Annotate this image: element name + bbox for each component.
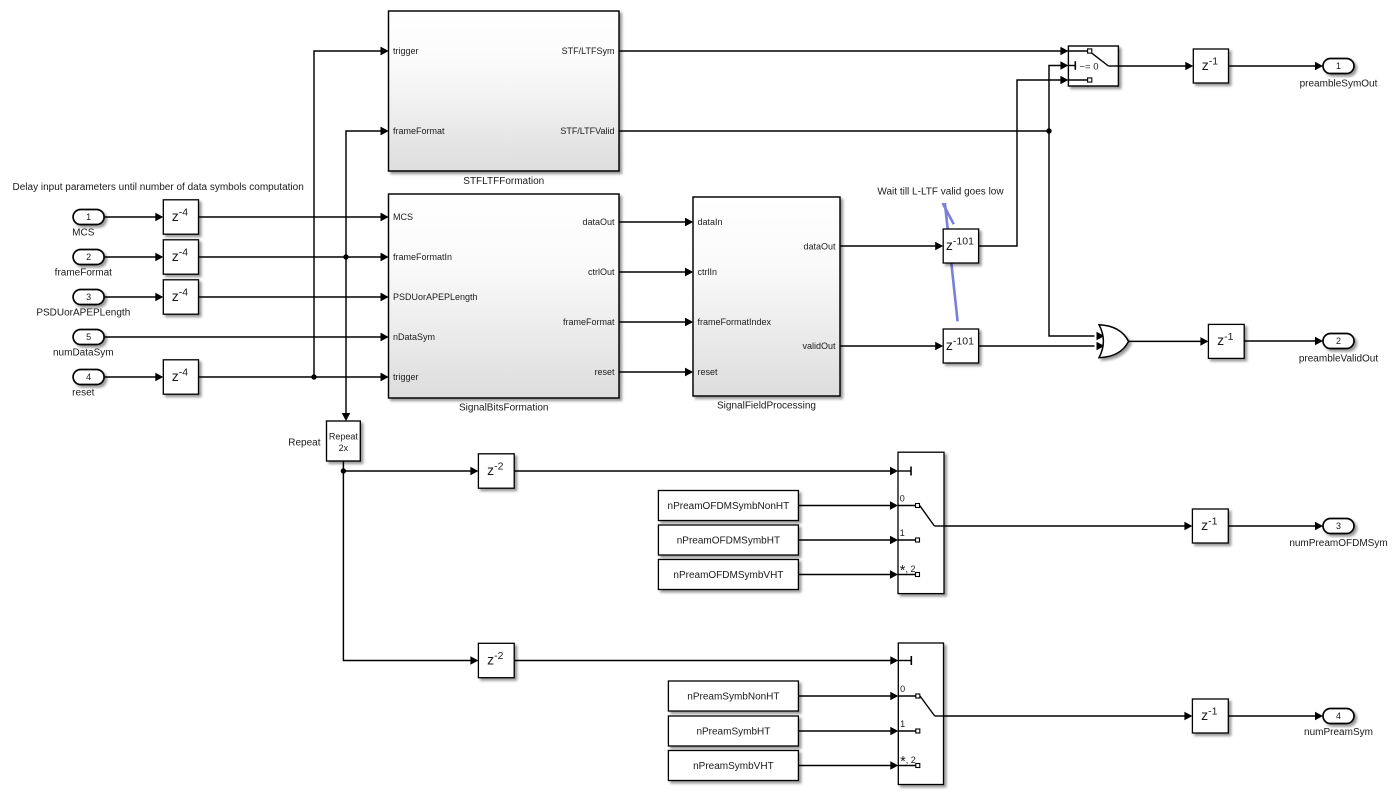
wire nPreamSymbNonHT to MultiportSwitch2 <box>798 692 898 701</box>
svg-text:3: 3 <box>1336 521 1341 531</box>
svg-text:trigger: trigger <box>393 46 419 56</box>
wire PSDUorAPEPLength port to Delay z-4 #3 <box>104 293 163 302</box>
wire Delay z-1 #4 to numPreamSym <box>1228 712 1323 721</box>
wire Delay z-4 #4 to SignalBitsFormation trigger <box>199 373 389 382</box>
annotation: Delay input parameters until number of data symbols computation <box>13 182 304 193</box>
wire to Delay z-2 #2 <box>343 471 478 665</box>
svg-text:numPreamOFDMSym: numPreamOFDMSym <box>1289 538 1387 549</box>
svg-text:PSDUorAPEPLength: PSDUorAPEPLength <box>393 292 478 302</box>
switch block ~= 0 <box>1068 46 1118 86</box>
callout line to Delay1 <box>943 203 954 224</box>
wire branch frameFormat down to Repeat <box>342 257 351 421</box>
delay block z-1 #2 <box>1208 324 1244 358</box>
wire nPreamOFDMSymbVHT to MultiportSwitch1 <box>798 570 898 579</box>
wire STF/LTFValid to junction <box>619 130 1049 132</box>
svg-text:~= 0: ~= 0 <box>1080 62 1099 73</box>
wire Delay z-2 #1 to MultiportSwitch1 control <box>514 467 898 476</box>
callout line to Delay2 <box>945 203 958 321</box>
constant nPreamSymbNonHT <box>668 681 798 711</box>
svg-text:reset: reset <box>698 367 719 377</box>
constant nPreamOFDMSymbNonHT <box>658 491 798 521</box>
wire Delay z-101 #2 to OR gate input 2 <box>979 342 1105 351</box>
svg-text:MCS: MCS <box>393 212 413 222</box>
svg-text:ctrlIn: ctrlIn <box>698 267 718 277</box>
svg-text:nPreamSymbVHT: nPreamSymbVHT <box>693 761 774 772</box>
svg-text:preambleValidOut: preambleValidOut <box>1299 354 1379 365</box>
svg-text:STF/LTFSym: STF/LTFSym <box>562 46 615 56</box>
delay block z-2 #2 <box>478 643 514 677</box>
svg-text:MCS: MCS <box>72 228 95 239</box>
svg-text:numPreamSym: numPreamSym <box>1304 727 1373 738</box>
wire SFP dataOut to Delay z-101 #1 <box>840 242 943 251</box>
svg-text:dataOut: dataOut <box>582 217 615 227</box>
wire MultiportSwitch2 to Delay z-1 #4 <box>944 712 1193 721</box>
constant nPreamSymbHT <box>668 716 798 746</box>
junction Repeat output branch <box>341 468 346 473</box>
delay block z-4 #3 <box>163 280 198 314</box>
svg-text:frameFormat: frameFormat <box>55 268 112 279</box>
junction frameFormat branch <box>343 254 348 259</box>
inport 2 frameFormat <box>55 250 112 279</box>
delay block z-2 #1 <box>478 454 514 488</box>
subsystem SignalFieldProcessing <box>685 197 840 412</box>
inport 4 reset <box>72 370 104 399</box>
svg-text:validOut: validOut <box>802 341 836 351</box>
svg-text:Repeat: Repeat <box>329 432 359 442</box>
wire Delay z-2 #2 to MultiportSwitch2 control <box>514 656 898 665</box>
wire frameFormat port to Delay z-4 #2 <box>104 253 163 262</box>
wire Delay z-1 #2 to preambleValidOut <box>1244 337 1323 346</box>
wire Delay z-1 #1 to preambleSymOut <box>1229 62 1324 71</box>
delay block z-1 #1 <box>1193 49 1228 83</box>
svg-text:nPreamSymbNonHT: nPreamSymbNonHT <box>687 692 779 703</box>
svg-text:4: 4 <box>1336 711 1341 721</box>
svg-text:numDataSym: numDataSym <box>53 348 114 359</box>
svg-text:dataOut: dataOut <box>803 242 836 252</box>
svg-text:dataIn: dataIn <box>698 217 723 227</box>
svg-text:reset: reset <box>594 367 615 377</box>
junction STF/LTFValid branch <box>1046 128 1051 133</box>
constant nPreamOFDMSymbVHT <box>658 560 798 590</box>
multiport switch 2 <box>898 643 943 785</box>
svg-text:0: 0 <box>900 494 905 504</box>
svg-text:Wait till L-LTF valid goes low: Wait till L-LTF valid goes low <box>877 187 1004 198</box>
inport 1 MCS <box>72 210 104 239</box>
inport 5 numDataSym <box>53 330 114 359</box>
svg-text:STF/LTFValid: STF/LTFValid <box>560 126 614 136</box>
svg-text:1: 1 <box>900 719 905 729</box>
wire branch frameFormat up to STFLTFFormation frameFormat <box>346 127 389 257</box>
wire nPreamSymbHT to MultiportSwitch2 <box>798 727 898 736</box>
delay block z-1 #3 <box>1192 509 1228 543</box>
wire ctrlOut to ctrlIn <box>619 268 693 277</box>
wire MultiportSwitch1 to Delay z-1 #3 <box>944 522 1192 531</box>
annotation: Wait till L-LTF valid goes low <box>877 187 1004 198</box>
subsystem STFLTFFormation <box>381 11 620 187</box>
wire nPreamSymbVHT to MultiportSwitch2 <box>798 761 898 770</box>
delay block z-4 #4 <box>163 360 198 394</box>
wire Repeat output down <box>342 461 344 471</box>
wire junction down to OR gate input 1 <box>1049 131 1105 340</box>
outport 2 preambleValidOut <box>1299 334 1379 365</box>
svg-text:nDataSym: nDataSym <box>393 332 435 342</box>
svg-text:STFLTFFormation: STFLTFFormation <box>463 176 544 187</box>
wire to Delay z-2 #1 <box>343 467 478 476</box>
wire STF/LTFSym to Switch input 1 <box>619 47 1068 56</box>
subsystem SignalBitsFormation <box>381 194 620 414</box>
wire branch trigger up to STFLTFFormation trigger <box>314 47 389 377</box>
junction trigger branch <box>311 374 316 379</box>
svg-text:nPreamSymbHT: nPreamSymbHT <box>696 727 770 738</box>
svg-text:4: 4 <box>86 372 91 382</box>
wire junction up to Switch control input <box>1049 61 1068 131</box>
wire frameFormat to frameFormatIndex <box>619 318 693 327</box>
svg-text:1: 1 <box>900 528 905 538</box>
delay block z-101 #2 <box>943 329 978 363</box>
outport 4 numPreamSym <box>1304 709 1373 739</box>
outport 3 numPreamOFDMSym <box>1289 519 1387 550</box>
svg-text:1: 1 <box>86 212 91 222</box>
svg-text:reset: reset <box>72 388 94 399</box>
outport 1 preambleSymOut <box>1300 59 1378 90</box>
svg-text:frameFormat: frameFormat <box>393 126 445 136</box>
wire nPreamOFDMSymbNonHT to MultiportSwitch1 <box>798 501 898 510</box>
svg-text:Repeat: Repeat <box>288 438 320 449</box>
wire Delay z-1 #3 to numPreamOFDMSym <box>1228 522 1323 531</box>
delay block z-4 #2 <box>163 240 198 274</box>
multiport switch 1 <box>898 452 944 593</box>
constant nPreamSymbVHT <box>668 751 798 781</box>
svg-text:trigger: trigger <box>393 372 419 382</box>
delay block z-101 #1 <box>943 229 978 263</box>
svg-text:5: 5 <box>86 332 91 342</box>
wire Delay z-4 #2 to SignalBitsFormation frameFormatIn <box>199 253 389 262</box>
wire reset to reset <box>619 368 693 377</box>
svg-text:0: 0 <box>900 684 905 694</box>
svg-text:PSDUorAPEPLength: PSDUorAPEPLength <box>36 308 130 319</box>
wire SFP validOut to Delay z-101 #2 <box>840 342 943 351</box>
wire MCS port to Delay z-4 #1 <box>104 213 163 222</box>
svg-text:preambleSymOut: preambleSymOut <box>1300 79 1378 90</box>
svg-text:frameFormat: frameFormat <box>563 317 615 327</box>
delay block z-4 #1 <box>163 200 198 234</box>
svg-text:frameFormatIn: frameFormatIn <box>393 252 452 262</box>
svg-text:SignalFieldProcessing: SignalFieldProcessing <box>717 401 816 412</box>
svg-text:SignalBitsFormation: SignalBitsFormation <box>459 403 548 414</box>
delay block z-1 #4 <box>1192 699 1228 733</box>
wire reset port to Delay z-4 #4 <box>104 373 163 382</box>
wire dataOut to dataIn <box>619 218 693 227</box>
svg-text:2: 2 <box>1336 336 1341 346</box>
wire numDataSym to SignalBitsFormation nDataSym <box>104 333 388 342</box>
block Repeat 2x <box>288 421 360 461</box>
wire Delay z-4 #3 to SignalBitsFormation PSDUorAPEPLength <box>199 293 389 302</box>
svg-text:2: 2 <box>86 252 91 262</box>
svg-text:nPreamOFDMSymbVHT: nPreamOFDMSymbVHT <box>673 570 783 581</box>
wire Delay z-101 #1 to Switch input 3 <box>979 76 1069 246</box>
OR gate (Logical Operator) <box>1099 325 1129 358</box>
inport 3 PSDUorAPEPLength <box>36 290 130 319</box>
wire OR gate to Delay z-1 #2 <box>1129 337 1209 346</box>
wire Delay z-4 #1 to SignalBitsFormation MCS <box>199 213 389 222</box>
svg-text:2x: 2x <box>339 443 349 453</box>
svg-text:1: 1 <box>1336 61 1341 71</box>
wire nPreamOFDMSymbHT to MultiportSwitch1 <box>798 536 898 545</box>
svg-text:nPreamOFDMSymbNonHT: nPreamOFDMSymbNonHT <box>668 501 790 512</box>
constant nPreamOFDMSymbHT <box>658 525 798 555</box>
svg-text:ctrlOut: ctrlOut <box>588 267 615 277</box>
svg-text:nPreamOFDMSymbHT: nPreamOFDMSymbHT <box>677 536 780 547</box>
wire Switch to Delay z-1 #1 <box>1118 62 1193 71</box>
svg-text:3: 3 <box>86 292 91 302</box>
svg-text:frameFormatIndex: frameFormatIndex <box>698 317 772 327</box>
svg-text:Delay input parameters until n: Delay input parameters until number of d… <box>13 182 304 193</box>
